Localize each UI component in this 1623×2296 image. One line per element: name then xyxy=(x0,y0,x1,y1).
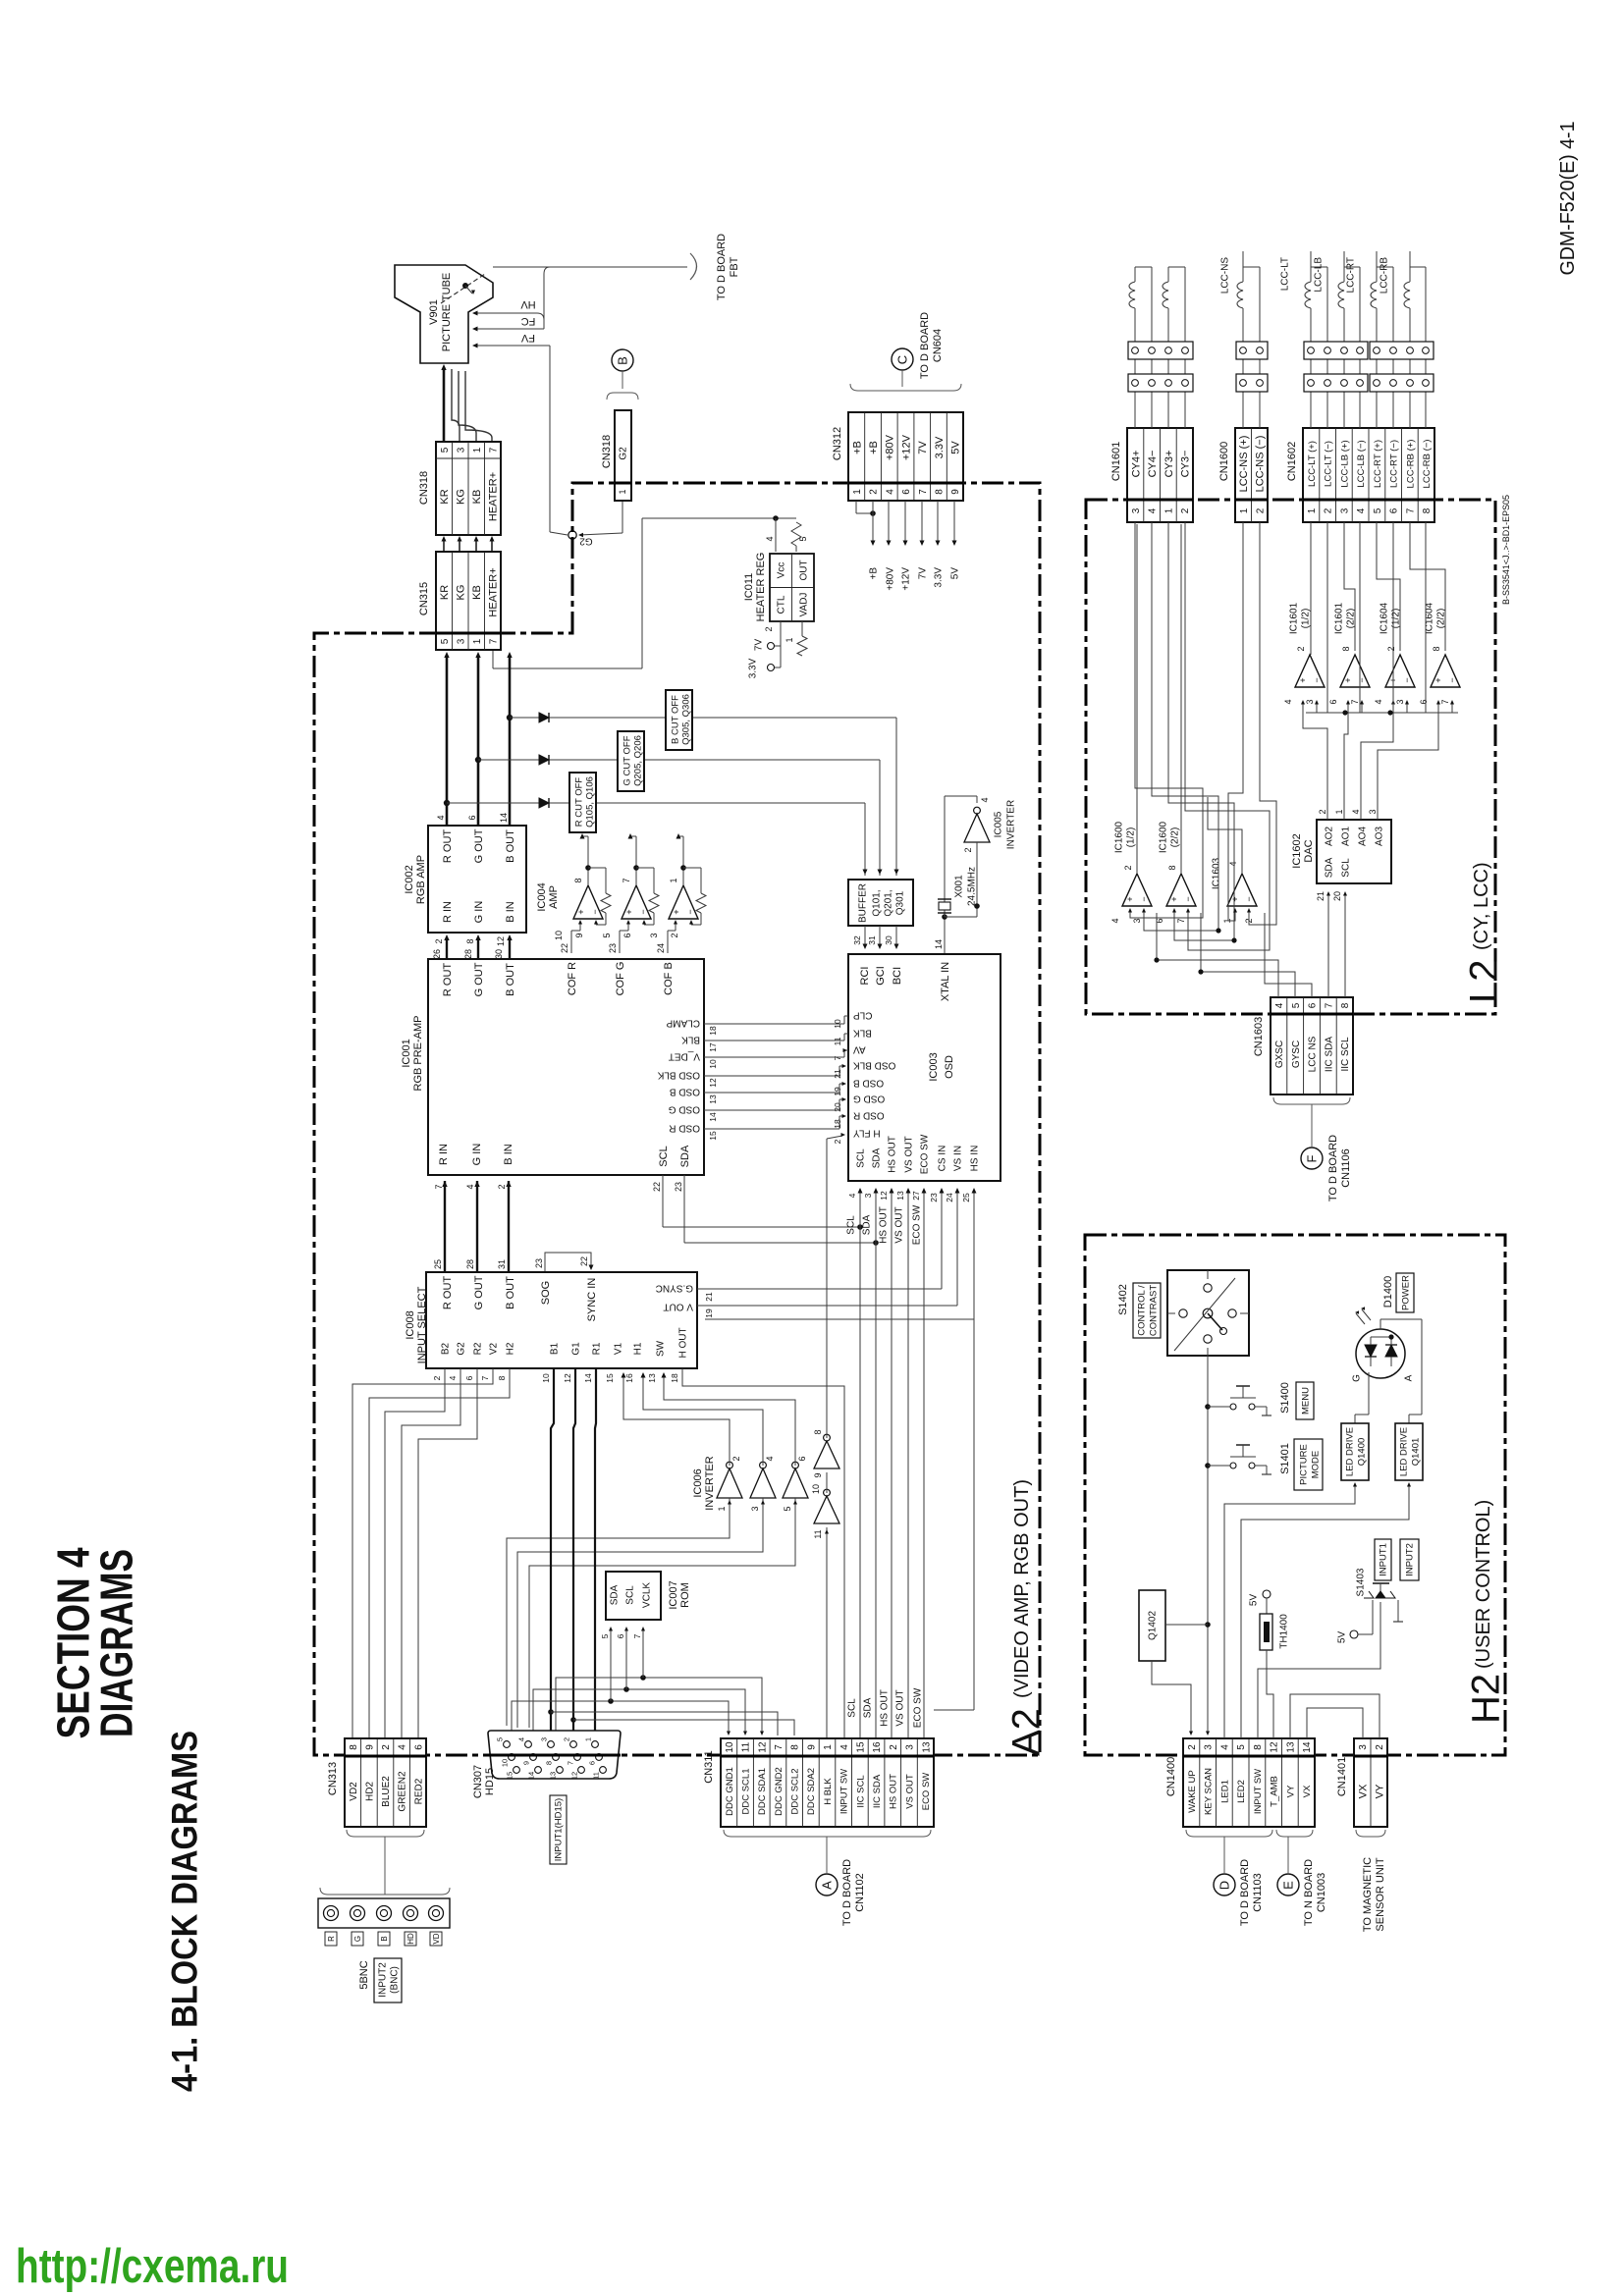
connector CN318 G2 xyxy=(615,410,631,501)
connector CN1602 xyxy=(1303,428,1434,522)
diode B cutoff line xyxy=(510,717,666,719)
svg-text:AO1: AO1 xyxy=(1341,827,1352,846)
svg-text:8: 8 xyxy=(1422,507,1433,513)
svg-text:3: 3 xyxy=(456,447,466,453)
svg-text:9: 9 xyxy=(365,1744,376,1750)
svg-text:LCC-LB (−): LCC-LB (−) xyxy=(1356,440,1367,487)
svg-text:7: 7 xyxy=(1406,507,1417,513)
svg-text:5V: 5V xyxy=(950,441,962,454)
svg-text:9: 9 xyxy=(806,1744,817,1750)
op-amp IC1604 2/2 xyxy=(1431,655,1460,687)
op-amp IC1600 2/2 xyxy=(1166,874,1196,906)
svg-text:1: 1 xyxy=(669,878,678,882)
svg-text:ECO SW: ECO SW xyxy=(921,1773,932,1811)
svg-text:CN311: CN311 xyxy=(703,1750,715,1783)
connector CN312 xyxy=(848,412,963,501)
svg-text:13: 13 xyxy=(708,1095,718,1104)
wire KB video xyxy=(509,655,512,826)
svg-text:7: 7 xyxy=(918,489,929,495)
svg-text:OUT: OUT xyxy=(799,560,810,580)
svg-text:4: 4 xyxy=(1351,809,1361,814)
IC002 RGB AMP xyxy=(428,826,526,933)
svg-text:32: 32 xyxy=(852,935,862,945)
svg-text:−: − xyxy=(1183,896,1193,901)
svg-text:Vcc: Vcc xyxy=(777,562,787,579)
svg-text:(CY, LCC): (CY, LCC) xyxy=(1471,862,1492,950)
svg-text:8: 8 xyxy=(497,1375,507,1380)
svg-text:6: 6 xyxy=(464,1375,474,1380)
svg-text:1: 1 xyxy=(1307,507,1318,513)
svg-text:8: 8 xyxy=(1341,646,1351,651)
svg-text:6: 6 xyxy=(1419,699,1429,704)
wires OSD bottom verticals to CN311 xyxy=(859,1193,861,1738)
svg-text:KB: KB xyxy=(471,490,483,505)
svg-text:INPUT1(HD15): INPUT1(HD15) xyxy=(553,1798,564,1861)
svg-text:CN1601: CN1601 xyxy=(1110,442,1122,481)
op-amp IC004 B xyxy=(669,885,698,919)
svg-text:B OUT: B OUT xyxy=(505,963,516,996)
svg-text:S1402: S1402 xyxy=(1117,1284,1129,1315)
svg-text:24.5MHz: 24.5MHz xyxy=(967,867,978,906)
svg-text:INPUT SW: INPUT SW xyxy=(839,1769,850,1814)
svg-text:3: 3 xyxy=(905,1744,916,1750)
svg-text:8: 8 xyxy=(349,1744,359,1750)
svg-text:SYNC IN: SYNC IN xyxy=(586,1278,598,1322)
svg-text:TO D BOARD: TO D BOARD xyxy=(716,234,728,300)
svg-text:HV: HV xyxy=(520,298,536,310)
svg-text:6: 6 xyxy=(616,1633,625,1638)
svg-text:OSD G: OSD G xyxy=(669,1103,700,1114)
svg-text:4: 4 xyxy=(1228,861,1238,866)
svg-text:7: 7 xyxy=(567,1761,575,1765)
svg-text:+B: +B xyxy=(851,441,863,454)
svg-text:B IN: B IN xyxy=(503,1144,514,1164)
svg-text:(1/2): (1/2) xyxy=(1126,828,1137,848)
svg-text:Q1400: Q1400 xyxy=(1356,1438,1367,1467)
svg-text:8: 8 xyxy=(545,1761,554,1765)
svg-text:1: 1 xyxy=(618,489,627,494)
svg-text:CN307: CN307 xyxy=(472,1765,484,1798)
svg-text:SCL: SCL xyxy=(856,1148,867,1168)
wires inverter outputs to IC008 xyxy=(623,1374,730,1466)
bracket CN311 + ref A xyxy=(724,1830,931,1837)
coils CN1602 LCC LT LB xyxy=(1310,392,1312,428)
svg-text:26: 26 xyxy=(432,949,442,959)
svg-text:5: 5 xyxy=(600,1633,610,1638)
svg-text:13: 13 xyxy=(895,1191,905,1201)
svg-text:7: 7 xyxy=(1176,918,1186,923)
LED D1400 POWER xyxy=(1356,1329,1405,1378)
svg-text:10: 10 xyxy=(541,1373,551,1383)
svg-text:GCI: GCI xyxy=(875,966,887,986)
boundary segments across connectors xyxy=(436,632,501,635)
svg-text:4: 4 xyxy=(1148,507,1159,513)
svg-text:2: 2 xyxy=(1318,809,1327,814)
svg-text:CN1003: CN1003 xyxy=(1316,1873,1327,1912)
block B CUT OFF Q305 Q306 xyxy=(666,690,692,750)
svg-text:10: 10 xyxy=(501,1759,510,1767)
svg-text:G2: G2 xyxy=(619,447,629,460)
svg-text:4-1. BLOCK DIAGRAMS: 4-1. BLOCK DIAGRAMS xyxy=(164,1731,204,2092)
svg-text:ROM: ROM xyxy=(679,1582,691,1608)
svg-text:23: 23 xyxy=(674,1182,683,1192)
svg-text:2: 2 xyxy=(563,1737,571,1741)
svg-text:22: 22 xyxy=(560,943,569,953)
svg-text:KEY SCAN: KEY SCAN xyxy=(1204,1768,1215,1815)
svg-text:Q1402: Q1402 xyxy=(1148,1611,1159,1640)
svg-text:RED2: RED2 xyxy=(413,1778,424,1804)
svg-text:2: 2 xyxy=(434,938,444,943)
svg-text:7V: 7V xyxy=(917,441,929,454)
svg-text:7: 7 xyxy=(774,1744,784,1750)
coil CN1600 LCC-NS xyxy=(1242,392,1244,428)
svg-text:G CUT OFF: G CUT OFF xyxy=(622,735,632,785)
svg-text:BLK: BLK xyxy=(681,1034,700,1044)
coils CN1601 CY xyxy=(1134,392,1136,428)
svg-text:CN1103: CN1103 xyxy=(1252,1873,1264,1912)
svg-text:DIAGRAMS: DIAGRAMS xyxy=(91,1549,142,1737)
svg-text:CY4+: CY4+ xyxy=(1130,451,1142,478)
svg-text:+: + xyxy=(672,909,681,914)
svg-text:LCC-RB (−): LCC-RB (−) xyxy=(1422,440,1433,489)
svg-text:12: 12 xyxy=(496,936,506,946)
svg-text:3: 3 xyxy=(863,1193,873,1198)
svg-text:IIC SDA: IIC SDA xyxy=(872,1774,883,1808)
svg-text:VS OUT: VS OUT xyxy=(904,1136,915,1172)
svg-text:G OUT: G OUT xyxy=(473,828,485,863)
svg-text:1: 1 xyxy=(717,1506,727,1511)
svg-text:7: 7 xyxy=(1324,1002,1334,1008)
svg-text:+12V: +12V xyxy=(901,567,912,591)
op-amp IC1603 xyxy=(1227,874,1257,906)
svg-text:5: 5 xyxy=(798,536,808,541)
svg-text:6: 6 xyxy=(1389,507,1400,513)
wires CN1600 to IC1603 xyxy=(1228,522,1243,921)
svg-text:16: 16 xyxy=(624,1373,634,1383)
svg-text:2: 2 xyxy=(833,1139,842,1144)
svg-text:−: − xyxy=(638,909,648,914)
wires IIC to DAC xyxy=(1327,895,1329,997)
svg-text:TO MAGNETIC: TO MAGNETIC xyxy=(1362,1857,1374,1932)
svg-text:2: 2 xyxy=(764,626,774,631)
svg-text:G2: G2 xyxy=(457,1342,467,1356)
wires IC1600 outputs xyxy=(1136,524,1138,874)
wire HEATER+ xyxy=(465,371,492,442)
wires IC001 to OSD left pins xyxy=(704,1023,844,1025)
svg-text:DDC SCL1: DDC SCL1 xyxy=(741,1769,752,1815)
svg-text:1: 1 xyxy=(1334,809,1344,814)
svg-text:H2: H2 xyxy=(506,1342,516,1355)
svg-text:LCC-NS (−): LCC-NS (−) xyxy=(1255,436,1267,493)
svg-text:25: 25 xyxy=(961,1193,971,1202)
svg-text:B2: B2 xyxy=(441,1342,452,1355)
svg-text:R1: R1 xyxy=(592,1342,603,1355)
svg-text:IC1602: IC1602 xyxy=(1291,833,1303,868)
svg-text:SCL: SCL xyxy=(847,1698,858,1718)
junction wires on video lines xyxy=(548,1709,554,1715)
svg-text:4: 4 xyxy=(517,1737,526,1741)
wires BUFFER to OSD xyxy=(864,926,866,948)
svg-text:Q301: Q301 xyxy=(895,890,906,915)
svg-text:TO N BOARD: TO N BOARD xyxy=(1303,1859,1315,1926)
svg-text:3: 3 xyxy=(750,1506,760,1511)
svg-text:V1: V1 xyxy=(614,1342,624,1355)
svg-text:VS OUT: VS OUT xyxy=(895,1689,906,1726)
svg-text:VY: VY xyxy=(1285,1785,1296,1797)
wire G2 from CN318 xyxy=(622,501,623,533)
svg-text:F: F xyxy=(1305,1154,1320,1162)
svg-text:1: 1 xyxy=(472,447,483,453)
svg-text:15: 15 xyxy=(856,1741,867,1753)
svg-text:3: 3 xyxy=(1395,699,1405,704)
svg-text:VS IN: VS IN xyxy=(953,1146,964,1171)
wires DAC AO to op-amp + inputs xyxy=(1303,702,1327,820)
svg-text:HS OUT: HS OUT xyxy=(888,1136,898,1173)
svg-text:5V: 5V xyxy=(1337,1631,1348,1644)
svg-text:CN1600: CN1600 xyxy=(1218,442,1230,481)
svg-text:7: 7 xyxy=(622,878,631,882)
IC003 OSD xyxy=(848,954,1001,1181)
svg-text:CN315: CN315 xyxy=(418,582,430,615)
svg-text:5: 5 xyxy=(440,447,451,453)
connector CN1603 xyxy=(1271,997,1353,1095)
svg-text:V2: V2 xyxy=(489,1342,500,1355)
svg-text:8: 8 xyxy=(813,1429,823,1434)
svg-text:12: 12 xyxy=(708,1078,718,1088)
svg-text:2: 2 xyxy=(1123,865,1133,870)
connector CN1600 xyxy=(1235,428,1268,522)
svg-text:6: 6 xyxy=(1328,699,1338,704)
svg-text:(BNC): (BNC) xyxy=(390,1966,401,1994)
svg-text:5: 5 xyxy=(783,1506,792,1511)
svg-text:Q205, Q206: Q205, Q206 xyxy=(632,735,643,786)
svg-text:CY4−: CY4− xyxy=(1147,451,1159,478)
svg-text:R CUT OFF: R CUT OFF xyxy=(573,777,584,828)
svg-text:5: 5 xyxy=(1373,507,1383,513)
svg-text:CONTROL /: CONTROL / xyxy=(1136,1285,1147,1336)
svg-text:GXSC: GXSC xyxy=(1274,1041,1285,1068)
svg-text:2: 2 xyxy=(1386,646,1396,651)
svg-text:H BLK: H BLK xyxy=(823,1778,834,1805)
svg-text:GYSC: GYSC xyxy=(1291,1041,1302,1068)
svg-text:24: 24 xyxy=(656,943,666,953)
svg-text:LCC NS: LCC NS xyxy=(1308,1036,1319,1072)
svg-text:4: 4 xyxy=(839,1744,850,1750)
svg-text:13: 13 xyxy=(549,1772,558,1780)
svg-text:GDM-F520(E) 4-1: GDM-F520(E) 4-1 xyxy=(1557,122,1579,276)
svg-text:4: 4 xyxy=(847,1193,857,1198)
svg-text:HS OUT: HS OUT xyxy=(880,1689,891,1727)
svg-text:6: 6 xyxy=(1308,1002,1319,1008)
svg-text:2: 2 xyxy=(1255,507,1266,513)
svg-text:−: − xyxy=(685,909,695,914)
block BUFFER Q101 Q201 Q301 xyxy=(848,880,913,926)
diode R cutoff line xyxy=(447,802,569,804)
svg-text:2: 2 xyxy=(497,1184,507,1189)
wires drivers to CN1400 xyxy=(1354,1484,1356,1494)
junction B cutoff xyxy=(507,715,513,721)
svg-text:OSD BLK: OSD BLK xyxy=(657,1069,700,1080)
svg-text:1: 1 xyxy=(1239,507,1250,513)
svg-text:V_DET: V_DET xyxy=(669,1050,700,1061)
svg-text:G IN: G IN xyxy=(473,901,485,924)
svg-text:28: 28 xyxy=(463,949,473,959)
wires LED to drivers xyxy=(1380,1319,1381,1329)
svg-text:LCC-NS: LCC-NS xyxy=(1220,257,1231,294)
svg-text:TO D BOARD: TO D BOARD xyxy=(919,312,931,379)
svg-text:OSD R: OSD R xyxy=(669,1122,700,1133)
svg-text:B OUT: B OUT xyxy=(505,1276,516,1309)
svg-text:10: 10 xyxy=(708,1059,718,1069)
svg-text:ECO SW: ECO SW xyxy=(912,1204,923,1245)
resistor near IC011 pin5 xyxy=(791,522,801,546)
svg-text:GREEN2: GREEN2 xyxy=(398,1771,408,1812)
wire FV xyxy=(473,345,550,347)
wires inverter inputs xyxy=(729,1498,730,1512)
block Q1402 xyxy=(1139,1590,1165,1661)
wires CY cells to IC1600 inputs xyxy=(1130,522,1203,918)
svg-text:6: 6 xyxy=(467,815,477,820)
svg-text:INPUT2: INPUT2 xyxy=(1404,1543,1415,1576)
svg-text:8: 8 xyxy=(790,1744,801,1750)
svg-text:+80V: +80V xyxy=(885,434,896,460)
wires SCL SDA bus from IC001 xyxy=(662,1175,664,1227)
svg-text:INPUT SW: INPUT SW xyxy=(1253,1769,1264,1814)
svg-text:7: 7 xyxy=(480,1375,490,1380)
svg-text:27: 27 xyxy=(911,1191,921,1201)
svg-text:30: 30 xyxy=(494,949,504,959)
svg-text:LCC-LT: LCC-LT xyxy=(1280,257,1291,291)
svg-text:21: 21 xyxy=(833,1069,842,1079)
svg-text:PICTURE: PICTURE xyxy=(1298,1444,1309,1485)
svg-text:BCI: BCI xyxy=(892,967,903,985)
svg-text:24: 24 xyxy=(945,1193,954,1202)
svg-text:VX: VX xyxy=(1302,1785,1313,1797)
svg-text:R OUT: R OUT xyxy=(442,1276,454,1310)
inverter IC005 xyxy=(976,796,978,803)
svg-text:2: 2 xyxy=(869,489,880,495)
svg-text:−: − xyxy=(1139,896,1149,901)
wire inverter chain to H FLY xyxy=(826,1139,828,1438)
svg-text:18: 18 xyxy=(670,1373,679,1383)
svg-text:LED DRIVE: LED DRIVE xyxy=(1398,1427,1409,1476)
svg-text:19: 19 xyxy=(833,1087,842,1096)
svg-text:23: 23 xyxy=(534,1258,544,1268)
svg-text:12: 12 xyxy=(563,1373,572,1383)
svg-text:SDA: SDA xyxy=(872,1148,883,1168)
svg-text:2: 2 xyxy=(670,933,679,937)
svg-text:1: 1 xyxy=(1164,507,1175,513)
svg-text:OSD R: OSD R xyxy=(853,1109,885,1120)
svg-text:18: 18 xyxy=(833,1119,842,1129)
svg-text:7: 7 xyxy=(434,1184,444,1189)
inverter IC006 5 xyxy=(814,1496,839,1523)
svg-text:8: 8 xyxy=(1340,1002,1351,1008)
svg-text:VX: VX xyxy=(1358,1784,1370,1798)
svg-text:22: 22 xyxy=(579,1256,589,1266)
svg-text:IC1600: IC1600 xyxy=(1114,821,1125,853)
svg-text:4: 4 xyxy=(465,1184,475,1189)
svg-text:4: 4 xyxy=(398,1744,408,1750)
svg-text:S1400: S1400 xyxy=(1279,1382,1291,1414)
svg-text:R OUT: R OUT xyxy=(442,829,454,864)
op-amp IC1601 1/2 xyxy=(1295,655,1325,687)
bracket CN1400 + ref D E xyxy=(1186,1830,1272,1837)
svg-text:5: 5 xyxy=(496,1737,505,1741)
svg-text:OSD: OSD xyxy=(944,1055,955,1079)
wire S1402 to CN1400 xyxy=(1207,1356,1209,1734)
svg-text:+: + xyxy=(1125,896,1135,901)
svg-text:G OUT: G OUT xyxy=(473,962,485,996)
wires VX VY to CN1401 xyxy=(1290,1694,1380,1738)
connector CN307 HD15 xyxy=(488,1731,621,1779)
svg-text:4: 4 xyxy=(765,1456,775,1461)
svg-text:3: 3 xyxy=(1204,1744,1215,1750)
op-amp IC1604 1/2 xyxy=(1385,655,1415,687)
svg-text:IC1601: IC1601 xyxy=(1289,602,1300,634)
svg-text:COF B: COF B xyxy=(663,962,675,995)
svg-text:7V: 7V xyxy=(754,639,765,652)
LED emission arrows xyxy=(1356,1313,1365,1324)
svg-text:1: 1 xyxy=(584,1737,593,1741)
svg-text:LCC-LB (+): LCC-LB (+) xyxy=(1339,440,1350,487)
svg-text:G: G xyxy=(353,1936,362,1942)
svg-text:B OUT: B OUT xyxy=(505,829,516,863)
svg-text:VY: VY xyxy=(1375,1784,1386,1798)
wire HV xyxy=(473,312,537,314)
switch S1402 CONTROL/CONTRAST xyxy=(1167,1270,1249,1356)
svg-text:14: 14 xyxy=(1302,1741,1313,1753)
svg-text:23: 23 xyxy=(929,1193,939,1202)
bracket TO D BOARD FBT xyxy=(690,253,697,280)
svg-text:4: 4 xyxy=(885,489,895,495)
svg-text:SCL: SCL xyxy=(625,1585,636,1605)
svg-text:HS OUT: HS OUT xyxy=(879,1206,890,1244)
crystal X001 xyxy=(944,917,946,954)
svg-text:2: 2 xyxy=(1375,1744,1385,1750)
svg-text:WAKE UP: WAKE UP xyxy=(1187,1770,1198,1812)
svg-text:2: 2 xyxy=(1187,1744,1198,1750)
svg-text:HEATER REG: HEATER REG xyxy=(755,553,767,622)
svg-text:TO D BOARD: TO D BOARD xyxy=(1327,1135,1339,1201)
wire KR to tube xyxy=(443,412,446,442)
svg-text:LED1: LED1 xyxy=(1219,1780,1230,1803)
svg-text:CTL: CTL xyxy=(777,595,787,614)
svg-text:G1: G1 xyxy=(571,1342,582,1356)
svg-text:−: − xyxy=(1312,677,1322,682)
svg-text:CY3+: CY3+ xyxy=(1163,451,1175,478)
svg-text:8: 8 xyxy=(465,938,475,943)
svg-text:G IN: G IN xyxy=(471,1144,483,1166)
svg-text:8: 8 xyxy=(573,878,583,882)
svg-text:Q201,: Q201, xyxy=(884,889,894,916)
svg-text:http://cxema.ru: http://cxema.ru xyxy=(16,2240,289,2293)
svg-text:3: 3 xyxy=(1305,699,1315,704)
svg-text:SENSOR UNIT: SENSOR UNIT xyxy=(1375,1857,1386,1931)
op-amp IC1600 1/2 xyxy=(1122,874,1152,906)
svg-text:DDC SCL2: DDC SCL2 xyxy=(790,1769,801,1815)
svg-text:3: 3 xyxy=(649,933,659,937)
svg-text:DDC GND1: DDC GND1 xyxy=(725,1767,735,1816)
svg-text:KB: KB xyxy=(471,585,483,600)
svg-text:B-SS3541<J..>-BD1-EPS05: B-SS3541<J..>-BD1-EPS05 xyxy=(1501,495,1511,605)
diode G cutoff line xyxy=(478,759,618,761)
svg-text:3: 3 xyxy=(456,638,466,644)
svg-text:LCC-NS (+): LCC-NS (+) xyxy=(1238,436,1250,493)
svg-text:G: G xyxy=(1352,1374,1363,1382)
svg-text:LCC-RB (+): LCC-RB (+) xyxy=(1405,440,1416,489)
svg-text:AO3: AO3 xyxy=(1375,827,1385,846)
